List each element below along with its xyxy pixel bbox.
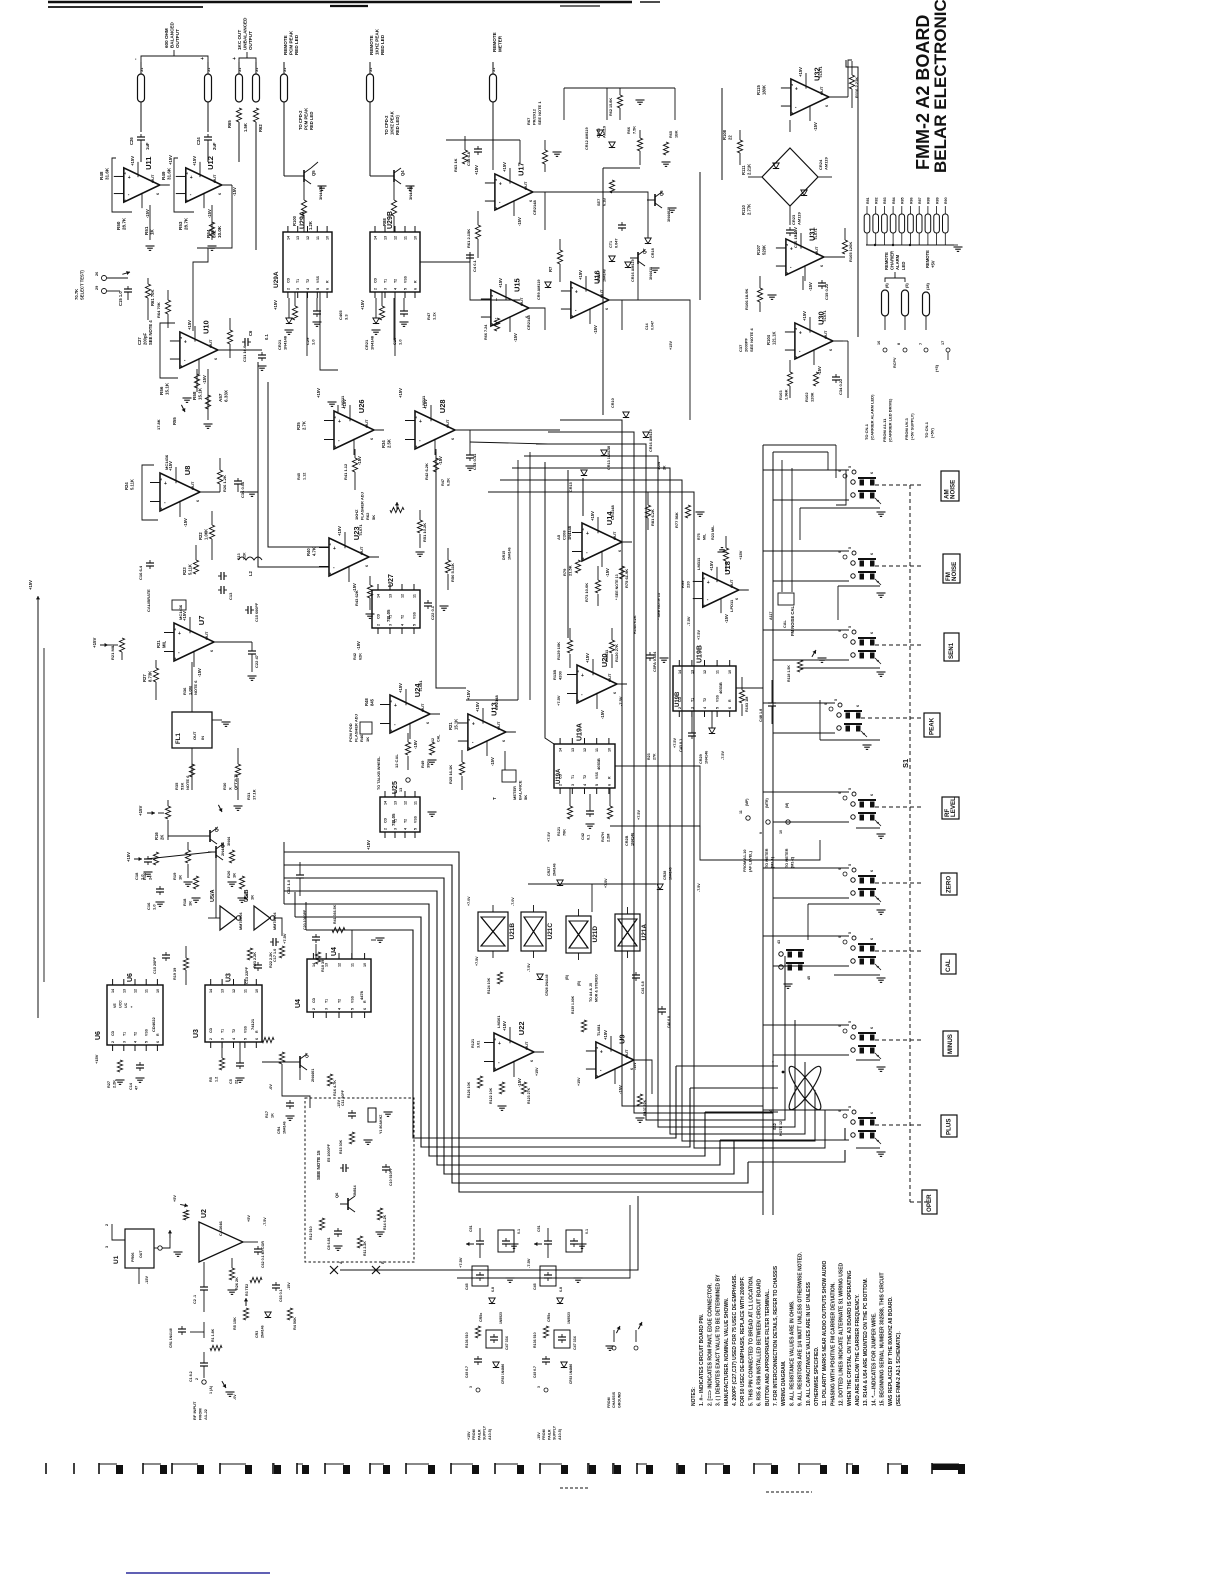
svg-text:2.5K: 2.5K <box>387 439 392 448</box>
svg-text:C4 0.1: C4 0.1 <box>472 259 477 272</box>
svg-text:+: + <box>338 419 341 425</box>
svg-text:1. #-- INDICATES CIRCUIT BOAR: 1. #-- INDICATES CIRCUIT BOARD PIN. <box>699 1313 705 1406</box>
svg-text:+15V: +15V <box>316 388 321 398</box>
svg-text:R53: R53 <box>178 221 183 230</box>
svg-text:C15 1.0: C15 1.0 <box>118 291 123 306</box>
svg-text:T1: T1 <box>325 999 329 1003</box>
svg-text:C48 1.8: C48 1.8 <box>759 709 763 722</box>
svg-text:3: 3 <box>394 828 398 830</box>
svg-text:OUT: OUT <box>729 579 734 588</box>
svg-text:5: 5 <box>716 707 720 709</box>
svg-text:11: 11 <box>595 748 599 752</box>
svg-text:R56: R56 <box>159 386 164 395</box>
svg-text:C13 22PF: C13 22PF <box>245 966 249 984</box>
svg-text:C45 6.7: C45 6.7 <box>533 1366 537 1378</box>
svg-text:4.7K: 4.7K <box>312 547 317 556</box>
svg-text:+: + <box>790 247 793 253</box>
svg-text:5: 5 <box>404 288 408 290</box>
svg-text:U25: U25 <box>392 781 399 794</box>
svg-text:WHEN THE CRYSTAL ON THE A3 BOA: WHEN THE CRYSTAL ON THE A3 BOARD IS OPER… <box>847 1270 853 1406</box>
svg-text:R111: R111 <box>741 165 746 175</box>
svg-text:-15V: -15V <box>183 518 188 527</box>
svg-text:29: 29 <box>95 286 99 290</box>
svg-text:CD: CD <box>384 817 388 823</box>
svg-text:+5V: +5V <box>247 1215 251 1222</box>
svg-text:6: 6 <box>870 794 874 796</box>
svg-text:1 (A): 1 (A) <box>209 1385 213 1394</box>
svg-text:+15V: +15V <box>360 300 365 310</box>
svg-text:+7.5V: +7.5V <box>637 810 641 820</box>
svg-text:R26 2K: R26 2K <box>235 1277 239 1290</box>
svg-text:0.1: 0.1 <box>517 1229 521 1234</box>
svg-text:RED LED: RED LED <box>309 112 314 130</box>
svg-text:R41 1.12: R41 1.12 <box>343 463 348 480</box>
svg-text:(AF LEVEL): (AF LEVEL) <box>749 850 753 872</box>
svg-text:R81: R81 <box>866 197 870 204</box>
svg-text:-15V: -15V <box>413 740 418 749</box>
svg-text:Q7: Q7 <box>304 1052 309 1058</box>
svg-text:Q7: Q7 <box>642 248 647 254</box>
svg-text:T2: T2 <box>394 279 398 283</box>
svg-text:U1: U1 <box>113 1255 120 1264</box>
svg-text:SEE NOTE 1: SEE NOTE 1 <box>537 101 542 125</box>
svg-text:6: 6 <box>156 1041 160 1043</box>
svg-text:R65: R65 <box>227 120 232 128</box>
svg-text:R66: R66 <box>627 127 631 134</box>
svg-text:Q1: Q1 <box>214 826 219 832</box>
svg-text:+: + <box>130 1006 134 1008</box>
svg-text:U7: U7 <box>197 616 206 626</box>
svg-text:1.12: 1.12 <box>303 473 307 480</box>
svg-text:3: 3 <box>790 84 794 86</box>
svg-text:L2: L2 <box>248 570 253 576</box>
svg-text:FLASHER ADJ: FLASHER ADJ <box>360 492 365 520</box>
svg-text:R5: R5 <box>209 1077 213 1082</box>
svg-text:RED LED): RED LED) <box>395 115 400 135</box>
svg-text:CD: CD <box>111 1030 115 1036</box>
svg-text:C16 6.4: C16 6.4 <box>138 565 143 580</box>
svg-text:3: 3 <box>469 1386 473 1388</box>
svg-text:5: 5 <box>595 784 599 786</box>
svg-text:-15V: -15V <box>232 187 237 196</box>
svg-text:3: 3 <box>570 287 574 289</box>
svg-text:CD: CD <box>286 277 290 283</box>
svg-text:Q2: Q2 <box>220 842 225 848</box>
svg-text:VSS: VSS <box>316 275 320 283</box>
svg-text:-15V: -15V <box>207 209 212 218</box>
svg-text:-15V: -15V <box>537 1432 541 1440</box>
svg-text:R135 1.00K: R135 1.00K <box>571 995 575 1014</box>
svg-text:Q4: Q4 <box>400 170 405 176</box>
svg-text:2: 2 <box>286 288 290 290</box>
svg-text:R50: R50 <box>116 221 121 230</box>
svg-text:12. DOTTED LINES INDICATE ALTE: 12. DOTTED LINES INDICATE ALTERNATE S1 W… <box>839 1262 845 1406</box>
svg-text:U6: U6 <box>127 973 134 982</box>
svg-text:+15V: +15V <box>669 341 673 350</box>
svg-text:C31 10.0: C31 10.0 <box>242 345 247 362</box>
svg-text:C2 .1: C2 .1 <box>193 1295 197 1304</box>
svg-text:+: + <box>495 298 498 304</box>
svg-text:3N4411: 3N4411 <box>649 267 653 280</box>
svg-text:5: 5 <box>848 547 852 549</box>
svg-text:15.1K: 15.1K <box>198 387 203 400</box>
svg-text:T2: T2 <box>401 615 405 619</box>
svg-text:CR19: CR19 <box>597 273 601 282</box>
svg-text:OUT: OUT <box>420 703 425 712</box>
svg-text:+15V: +15V <box>603 1030 608 1040</box>
svg-text:0.047: 0.047 <box>651 321 655 330</box>
svg-text:7. FOR INTERCONNECTION DETAIL: 7. FOR INTERCONNECTION DETAILS, REFER TO… <box>773 1265 779 1406</box>
svg-text:U19B: U19B <box>675 691 681 707</box>
svg-text:AM119: AM119 <box>603 126 607 138</box>
svg-text:3. ( ) DENOTES EXACT VALUE TO: 3. ( ) DENOTES EXACT VALUE TO BE DETERMI… <box>716 1274 722 1406</box>
svg-text:3: 3 <box>221 1038 225 1040</box>
svg-text:METER: METER <box>498 35 503 52</box>
svg-text:2: 2 <box>185 199 189 201</box>
svg-text:(MTR): (MTR) <box>765 798 769 808</box>
svg-text:C47 33X: C47 33X <box>573 1335 577 1350</box>
svg-text:5: 5 <box>848 1021 852 1023</box>
svg-text:R66 7.24: R66 7.24 <box>484 324 488 340</box>
svg-text:CR53 1N4886: CR53 1N4886 <box>501 1364 505 1384</box>
svg-text:PCM PEAK: PCM PEAK <box>304 108 309 130</box>
svg-text:RED LED: RED LED <box>380 34 385 55</box>
svg-text:VSS: VSS <box>716 694 720 702</box>
svg-text:UCC: UCC <box>119 1000 123 1008</box>
svg-text:C37: C37 <box>738 344 743 352</box>
svg-text:2: 2 <box>333 445 337 447</box>
svg-text:26: 26 <box>95 272 99 276</box>
svg-text:C35 0.22: C35 0.22 <box>824 283 829 300</box>
svg-text:TO TALKB WHEEL: TO TALKB WHEEL <box>377 756 381 790</box>
svg-text:R22: R22 <box>198 532 203 540</box>
svg-text:+: + <box>200 57 206 60</box>
svg-text:R24: R24 <box>124 482 129 490</box>
svg-text:AND ARE BELOW THE CARRIER FREQ: AND ARE BELOW THE CARRIER FREQUENCY. <box>855 1294 861 1406</box>
svg-text:FLASHER ADJ: FLASHER ADJ <box>354 714 359 742</box>
svg-text:3: 3 <box>105 1246 109 1248</box>
svg-text:VSS: VSS <box>145 1028 149 1036</box>
svg-text:R21 MIL: R21 MIL <box>110 644 115 660</box>
svg-text:CD: CD <box>377 613 381 619</box>
svg-text:3: 3 <box>702 577 706 579</box>
svg-text:2: 2 <box>576 699 580 701</box>
svg-text:U22: U22 <box>517 1021 526 1035</box>
svg-text:FMM-2 A2 BOARD: FMM-2 A2 BOARD <box>913 15 933 170</box>
svg-text:1.2K: 1.2K <box>308 221 313 230</box>
svg-text:CR23: CR23 <box>791 214 796 225</box>
svg-text:TL071: TL071 <box>818 66 823 78</box>
svg-text:-0V: -0V <box>233 1394 237 1400</box>
svg-text:3: 3 <box>494 179 498 181</box>
svg-text:12: 12 <box>394 236 398 240</box>
svg-text:ZERO: ZERO <box>946 876 953 893</box>
svg-text:OUT: OUT <box>192 731 197 740</box>
svg-text:1N4148: 1N4148 <box>603 269 607 282</box>
svg-text:28.7K: 28.7K <box>122 217 127 230</box>
svg-text:51K: 51K <box>180 783 185 790</box>
svg-text:10: 10 <box>255 989 259 993</box>
svg-text:REMOTE: REMOTE <box>492 32 497 52</box>
svg-text:C45 6.7: C45 6.7 <box>465 1366 469 1378</box>
svg-text:2: 2 <box>493 1067 497 1069</box>
svg-text:+: + <box>232 57 238 60</box>
svg-text:R73 10.0K: R73 10.0K <box>584 583 589 602</box>
svg-text:LEVEL: LEVEL <box>950 797 957 817</box>
svg-text:12: 12 <box>338 963 342 967</box>
svg-text:U11: U11 <box>144 157 153 170</box>
svg-text:CR16 AM119: CR16 AM119 <box>631 259 635 282</box>
svg-text:TO CPD-2: TO CPD-2 <box>298 110 303 130</box>
svg-text:2: 2 <box>702 604 706 606</box>
svg-text:R84: R84 <box>892 197 896 204</box>
svg-text:J1: J1 <box>238 68 242 72</box>
svg-text:5: 5 <box>848 788 852 790</box>
svg-text:T1: T1 <box>296 279 300 283</box>
svg-text:10: 10 <box>363 963 367 967</box>
svg-text:CR13 1N4148: CR13 1N4148 <box>607 446 611 470</box>
svg-text:+: + <box>581 673 584 679</box>
svg-text:U19A: U19A <box>577 723 584 741</box>
svg-text:+15V: +15V <box>738 550 743 560</box>
svg-text:(8): (8) <box>885 283 889 288</box>
svg-text:+15V: +15V <box>502 1021 507 1031</box>
svg-text:SEE NOTE 4: SEE NOTE 4 <box>148 320 153 345</box>
svg-text:+: + <box>419 419 422 425</box>
svg-text:VSS: VSS <box>243 1025 247 1033</box>
svg-text:R13B: R13B <box>552 670 557 680</box>
svg-text:6.2K: 6.2K <box>447 478 451 486</box>
svg-text:R124 10K: R124 10K <box>487 977 491 994</box>
svg-text:T1: T1 <box>122 1032 126 1036</box>
svg-text:3: 3 <box>794 328 798 330</box>
svg-text:-15V: -15V <box>287 1282 291 1290</box>
svg-text:R18: R18 <box>182 898 187 906</box>
svg-text:-15V: -15V <box>808 282 813 291</box>
svg-text:3N4401: 3N4401 <box>408 185 413 200</box>
svg-text:+15V: +15V <box>192 156 197 166</box>
svg-text:3: 3 <box>595 1047 599 1049</box>
svg-text:+15V: +15V <box>802 311 807 321</box>
svg-text:+15V: +15V <box>187 320 192 330</box>
svg-text:R77 56K: R77 56K <box>674 512 679 528</box>
svg-text:U26: U26 <box>357 399 366 413</box>
svg-text:4. 200PF (C27,C37) USED FOR 7: 4. 200PF (C27,C37) USED FOR 75 USEC DE-E… <box>732 1274 738 1406</box>
svg-text:+15V: +15V <box>398 683 403 693</box>
svg-text:U27: U27 <box>388 574 395 587</box>
svg-text:(SEE FMM-2 A2-1 SCHEMATIC).: (SEE FMM-2 A2-1 SCHEMATIC). <box>896 1331 902 1406</box>
svg-text:C45: C45 <box>533 1283 537 1290</box>
svg-text:FROM: FROM <box>472 1429 476 1440</box>
svg-text:C38 6.8: C38 6.8 <box>466 151 471 166</box>
svg-text:SEN1: SEN1 <box>948 642 955 659</box>
svg-text:(+5): (+5) <box>935 364 939 372</box>
svg-text:METER: METER <box>512 786 517 800</box>
svg-text:2: 2 <box>490 323 494 325</box>
svg-text:2: 2 <box>414 445 418 447</box>
svg-text:2uF: 2uF <box>212 142 217 150</box>
svg-text:C51: C51 <box>537 1225 541 1232</box>
svg-text:5K: 5K <box>523 795 528 800</box>
svg-text:CR5x: CR5x <box>547 1313 551 1322</box>
svg-text:MC1436: MC1436 <box>164 454 169 470</box>
svg-text:OUT: OUT <box>359 546 364 555</box>
svg-text:+7.0V: +7.0V <box>467 896 471 906</box>
svg-text:NOTE 6: NOTE 6 <box>193 680 198 695</box>
svg-text:3: 3 <box>576 670 580 672</box>
svg-text:REMOTE: REMOTE <box>884 252 889 270</box>
svg-text:+15V: +15V <box>94 1054 99 1064</box>
svg-text:R48: R48 <box>99 171 104 180</box>
svg-text:R118 1.5K: R118 1.5K <box>787 665 791 682</box>
svg-text:6: 6 <box>829 349 833 351</box>
svg-text:28.7K: 28.7K <box>184 217 189 230</box>
svg-text:15. BEGINNING SERIAL NUMBER 30: 15. BEGINNING SERIAL NUMBER 302588, THIS… <box>880 1272 886 1406</box>
svg-text:C14: C14 <box>129 1082 133 1090</box>
svg-text:A10-5): A10-5) <box>558 1428 562 1440</box>
svg-text:6.33X: 6.33X <box>224 389 229 402</box>
svg-text:C27: C27 <box>137 337 142 345</box>
svg-text:FROM: FROM <box>607 1397 611 1408</box>
svg-text:R83: R83 <box>883 197 887 204</box>
svg-text:22: 22 <box>728 135 733 140</box>
svg-text:(MP): (MP) <box>745 799 749 806</box>
svg-text:R110: R110 <box>741 205 746 215</box>
svg-text:+: + <box>498 1041 501 1047</box>
svg-text:U18: U18 <box>723 561 732 575</box>
svg-text:R50 5.11K: R50 5.11K <box>450 563 455 582</box>
svg-text:(+5V SUPPLY): (+5V SUPPLY) <box>910 413 915 440</box>
svg-text:6: 6 <box>735 598 739 600</box>
svg-text:6: 6 <box>728 707 732 709</box>
svg-text:3: 3 <box>490 295 494 297</box>
svg-text:LM311: LM311 <box>421 395 426 408</box>
svg-text:6: 6 <box>870 1027 874 1029</box>
svg-text:LED: LED <box>901 262 906 270</box>
svg-text:1.0: 1.0 <box>311 339 316 345</box>
svg-text:10: 10 <box>414 236 418 240</box>
svg-text:1/2W: 1/2W <box>657 461 661 470</box>
svg-text:11: 11 <box>404 236 408 240</box>
svg-text:T1: T1 <box>221 1029 225 1033</box>
svg-text:529K: 529K <box>762 245 767 255</box>
svg-text:13: 13 <box>122 989 126 993</box>
svg-text:R62: R62 <box>258 124 263 132</box>
svg-text:MM74C04: MM74C04 <box>239 912 243 930</box>
svg-text:R7: R7 <box>548 266 553 272</box>
svg-text:+7.5V: +7.5V <box>604 878 608 888</box>
svg-text:-15V: -15V <box>813 122 818 131</box>
svg-text:2N4401: 2N4401 <box>311 1069 315 1082</box>
svg-text:+15V: +15V <box>474 165 479 175</box>
svg-text:+15V: +15V <box>130 156 135 166</box>
svg-text:R49: R49 <box>420 760 425 768</box>
svg-text:R46: R46 <box>359 734 364 742</box>
svg-text:R136 510: R136 510 <box>533 1332 537 1348</box>
svg-text:43: 43 <box>777 940 781 944</box>
svg-text:17.8K: 17.8K <box>156 419 161 430</box>
svg-text:8.73K: 8.73K <box>148 671 153 682</box>
svg-text:U21D: U21D <box>592 926 599 943</box>
svg-text:TO A4 & J5: TO A4 & J5 <box>589 983 593 1002</box>
svg-text:6: 6 <box>156 193 160 195</box>
svg-text:C18: C18 <box>134 872 139 880</box>
svg-text:ALARM: ALARM <box>895 254 900 270</box>
svg-text:1N5523: 1N5523 <box>499 1312 503 1324</box>
svg-text:TO CN-1: TO CN-1 <box>864 423 869 440</box>
svg-text:1K: 1K <box>188 901 193 906</box>
svg-text:MIL: MIL <box>703 533 707 540</box>
svg-text:J1: J1 <box>207 68 211 72</box>
svg-text:C405: C405 <box>338 310 343 320</box>
svg-text:CR12 AM119: CR12 AM119 <box>585 127 589 150</box>
svg-text:+15V: +15V <box>366 840 371 850</box>
svg-text:OUT: OUT <box>212 174 217 183</box>
svg-text:4053B: 4053B <box>718 682 723 694</box>
svg-text:3: 3 <box>179 337 183 339</box>
svg-text:R21: R21 <box>448 722 453 730</box>
svg-text:J1: J1 <box>283 68 287 72</box>
svg-text:-15V: -15V <box>517 1078 522 1087</box>
svg-text:3: 3 <box>785 244 789 246</box>
svg-text:6: 6 <box>196 500 200 502</box>
svg-text:TL081: TL081 <box>596 1024 601 1036</box>
svg-text:3N4401: 3N4401 <box>318 185 323 200</box>
svg-text:R85: R85 <box>901 197 905 204</box>
svg-text:2K: 2K <box>663 465 667 470</box>
svg-text:12: 12 <box>583 748 587 752</box>
svg-text:DR15: DR15 <box>502 551 506 560</box>
svg-text:CR2148: CR2148 <box>526 315 531 330</box>
svg-text:1N4148: 1N4148 <box>283 335 288 350</box>
svg-text:6: 6 <box>870 472 874 474</box>
svg-text:10: 10 <box>326 236 330 240</box>
svg-text:10.0K: 10.0K <box>217 225 222 238</box>
svg-text:R12 510: R12 510 <box>309 1226 313 1240</box>
svg-text:C11 30PF: C11 30PF <box>341 1089 345 1106</box>
svg-text:(B): (B) <box>577 980 581 986</box>
svg-text:6: 6 <box>820 265 824 267</box>
svg-text:BALANCED: BALANCED <box>170 22 175 48</box>
svg-text:12: 12 <box>404 801 408 805</box>
svg-text:11: 11 <box>739 810 743 814</box>
svg-text:C17 1.0: C17 1.0 <box>273 949 277 962</box>
svg-text:CD: CD <box>374 277 378 283</box>
svg-text:3: 3 <box>185 172 189 174</box>
svg-text:13. R14A & U54 ARE MOUNTED ON: 13. R14A & U54 ARE MOUNTED ON THE PC BOT… <box>863 1278 869 1406</box>
svg-text:S1: S1 <box>901 759 910 768</box>
svg-text:MINUS: MINUS <box>947 1034 954 1054</box>
svg-text:CHASSIS: CHASSIS <box>612 1391 616 1408</box>
svg-text:T1: T1 <box>384 279 388 283</box>
svg-text:R25 16.1K: R25 16.1K <box>448 765 453 784</box>
svg-text:5: 5 <box>848 932 852 934</box>
svg-text:C24: C24 <box>196 137 201 145</box>
svg-text:R41 366.5K: R41 366.5K <box>333 904 337 924</box>
svg-text:62K: 62K <box>359 653 363 660</box>
svg-text:11: 11 <box>243 989 247 993</box>
svg-text:R79: R79 <box>562 568 567 576</box>
svg-text:PHASING WITH POSITIVE FM CARRI: PHASING WITH POSITIVE FM CARRIER DEVIATI… <box>830 1282 836 1406</box>
svg-text:1KC OUT: 1KC OUT <box>237 30 242 50</box>
svg-text:6: 6 <box>870 1112 874 1114</box>
svg-text:8: 8 <box>897 343 901 345</box>
svg-text:10: 10 <box>728 670 732 674</box>
svg-text:OUT: OUT <box>524 1041 529 1050</box>
svg-text:1N4146: 1N4146 <box>508 547 512 560</box>
svg-text:+15V: +15V <box>466 690 471 700</box>
svg-text:-15V: -15V <box>490 757 495 766</box>
